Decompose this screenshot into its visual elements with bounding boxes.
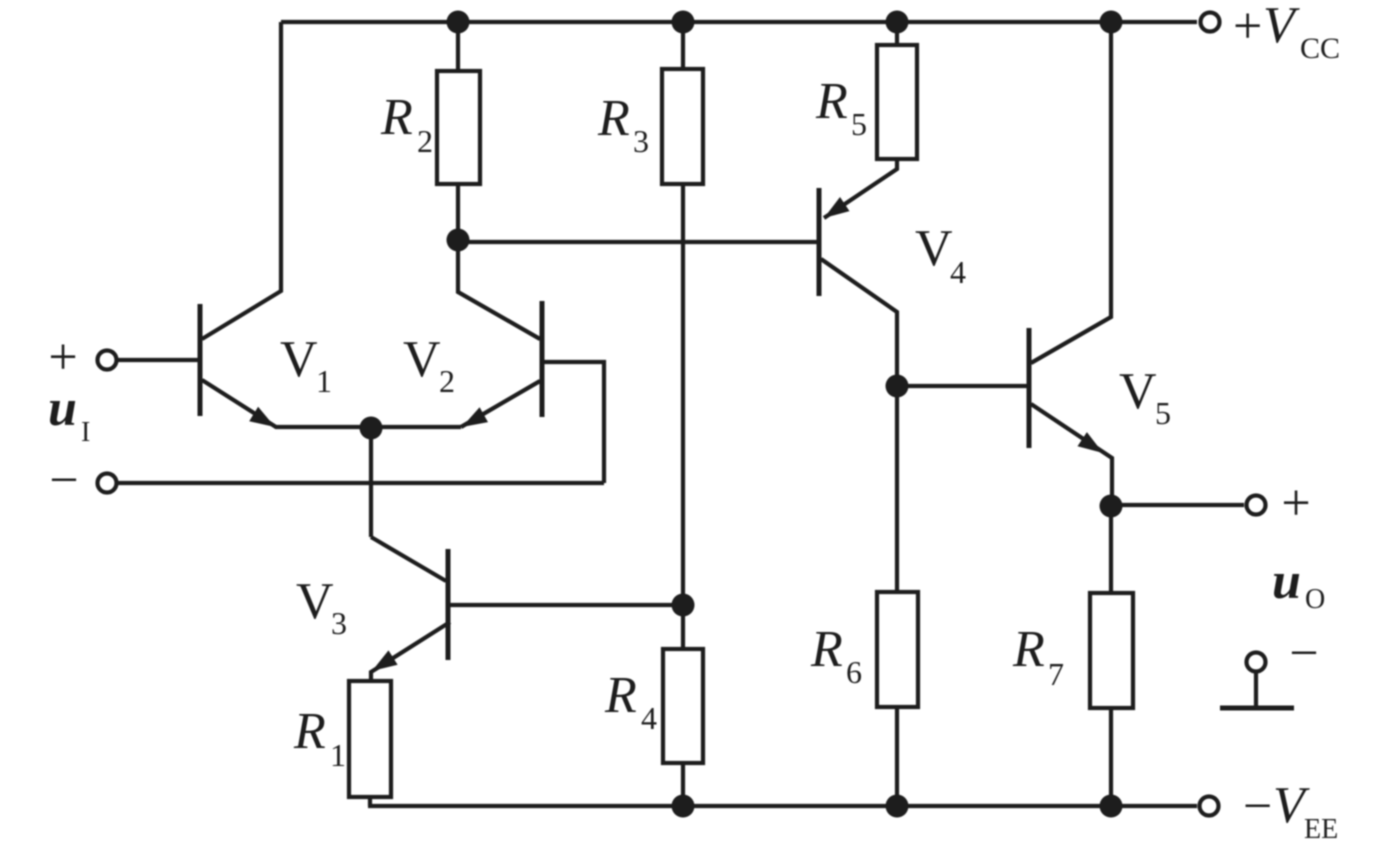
wire R4 top lead bbox=[681, 605, 685, 649]
node top rail / V5 collector bbox=[1100, 11, 1123, 34]
arrow V2 emitter bbox=[462, 407, 488, 427]
node bottom rail / R4 bbox=[672, 795, 695, 818]
node bottom rail / R7 bbox=[1100, 795, 1123, 818]
transistor V5 collector bbox=[1031, 22, 1111, 363]
transistor V3 emitter bbox=[371, 622, 450, 681]
svg-text:CC: CC bbox=[1300, 32, 1340, 65]
svg-text:R: R bbox=[604, 667, 637, 724]
transistor V4 collector bbox=[821, 259, 897, 386]
resistor R1 bbox=[349, 681, 391, 797]
svg-text:3: 3 bbox=[331, 605, 347, 641]
svg-text:2: 2 bbox=[439, 363, 455, 399]
svg-text:u: u bbox=[1272, 553, 1301, 610]
svg-text:u: u bbox=[48, 380, 77, 437]
svg-text:V: V bbox=[915, 220, 953, 277]
svg-text:5: 5 bbox=[851, 106, 867, 142]
terminal +Vcc bbox=[1201, 13, 1220, 32]
svg-text:EE: EE bbox=[1304, 814, 1338, 845]
node V4 collector bbox=[886, 375, 909, 398]
wire R2 top lead bbox=[456, 22, 460, 71]
wire R7 top lead bbox=[1109, 506, 1113, 593]
wire output bbox=[1111, 503, 1244, 507]
svg-text:V: V bbox=[280, 331, 318, 388]
svg-text:R: R bbox=[1012, 621, 1045, 678]
svg-text:R: R bbox=[810, 621, 843, 678]
node V1-V2 emitters bbox=[360, 417, 383, 440]
transistor V2 base lead bbox=[544, 362, 604, 483]
wire R1 bottom bbox=[368, 797, 372, 806]
transistor V1 collector bbox=[202, 22, 281, 339]
arrow V5 emitter bbox=[1078, 432, 1104, 453]
svg-text:−: − bbox=[1289, 625, 1318, 682]
wire R3 bottom to V3 collector node bbox=[681, 184, 685, 605]
node R2 bottom bbox=[447, 229, 470, 252]
svg-text:R: R bbox=[380, 89, 413, 146]
wire R6 top lead bbox=[895, 386, 899, 592]
wire R4 bottom lead bbox=[681, 763, 685, 806]
wire R7 bottom lead bbox=[1109, 708, 1113, 806]
node bottom rail / R6 bbox=[886, 795, 909, 818]
wire R2 node to V4 base bbox=[458, 240, 817, 244]
terminal -Vee bbox=[1200, 797, 1219, 816]
svg-text:O: O bbox=[1305, 584, 1325, 615]
terminal output + bbox=[1247, 496, 1266, 515]
svg-text:3: 3 bbox=[633, 123, 649, 159]
arrow V3 emitter bbox=[372, 650, 398, 671]
svg-text:−: − bbox=[1243, 778, 1272, 835]
transistor V2 base bar bbox=[540, 301, 545, 417]
svg-text:+: + bbox=[48, 329, 77, 386]
node top rail / R5 bbox=[886, 11, 909, 34]
svg-text:1: 1 bbox=[330, 737, 346, 773]
wire top +Vcc rail bbox=[281, 20, 1197, 24]
transistor V1 base bar bbox=[198, 304, 203, 416]
terminal input - bbox=[98, 474, 117, 493]
resistor R7 bbox=[1090, 593, 1133, 708]
transistor V3 collector bbox=[450, 603, 683, 607]
wire input- line bbox=[118, 481, 604, 485]
transistor V5 base bar bbox=[1027, 328, 1032, 448]
ground bbox=[1254, 672, 1258, 706]
transistor V2 emitter bbox=[461, 381, 540, 427]
svg-text:V: V bbox=[1263, 0, 1300, 54]
node top rail / R2 bbox=[447, 11, 470, 34]
resistor R4 bbox=[663, 649, 703, 763]
wire V5 base lead bbox=[897, 384, 1027, 388]
wire bottom -Vee rail bbox=[368, 804, 1197, 808]
wire R6 bottom lead bbox=[895, 707, 899, 806]
resistor R2 bbox=[437, 71, 480, 184]
wire R3 top lead bbox=[681, 22, 685, 69]
node R3 / V3 collector / R4 bbox=[672, 594, 695, 617]
svg-text:1: 1 bbox=[316, 363, 332, 399]
transistor V2 collector bbox=[458, 240, 540, 339]
transistor V3 base bar bbox=[446, 549, 451, 660]
svg-text:I: I bbox=[81, 417, 90, 448]
node V5 emitter / R7 bbox=[1100, 495, 1123, 518]
transistor V3 base lead bbox=[371, 537, 446, 581]
resistor R3 bbox=[662, 69, 703, 184]
svg-text:+: + bbox=[1233, 0, 1262, 55]
svg-text:7: 7 bbox=[1048, 656, 1064, 692]
arrow V4 emitter bbox=[824, 197, 850, 218]
wire input+ to V1 base bbox=[117, 358, 198, 362]
transistor V4 emitter from R5 bbox=[824, 159, 897, 218]
svg-text:2: 2 bbox=[417, 123, 433, 159]
resistor R6 bbox=[877, 592, 918, 707]
wire emitter node down bbox=[369, 428, 373, 537]
svg-text:V: V bbox=[1119, 363, 1157, 420]
svg-text:+: + bbox=[1281, 475, 1310, 532]
svg-text:4: 4 bbox=[950, 254, 966, 290]
wire R5 top lead bbox=[895, 22, 899, 45]
svg-text:5: 5 bbox=[1155, 395, 1171, 431]
svg-text:4: 4 bbox=[641, 700, 657, 736]
svg-text:R: R bbox=[293, 703, 326, 760]
transistor V4 base bar bbox=[817, 188, 822, 296]
node top rail / R3 bbox=[672, 11, 695, 34]
svg-text:R: R bbox=[597, 90, 630, 147]
svg-text:R: R bbox=[815, 73, 848, 130]
resistor R5 bbox=[877, 45, 917, 159]
svg-text:−: − bbox=[49, 452, 78, 509]
transistor V5 emitter bbox=[1031, 404, 1112, 506]
wire R2 bottom lead bbox=[456, 184, 460, 240]
transistor V1 emitter bbox=[202, 380, 461, 427]
terminal input + bbox=[98, 351, 117, 370]
arrow V1 emitter bbox=[249, 407, 275, 427]
svg-text:V: V bbox=[403, 331, 441, 388]
svg-text:V: V bbox=[296, 573, 334, 630]
terminal output - bbox=[1247, 653, 1266, 672]
svg-text:6: 6 bbox=[846, 654, 862, 690]
